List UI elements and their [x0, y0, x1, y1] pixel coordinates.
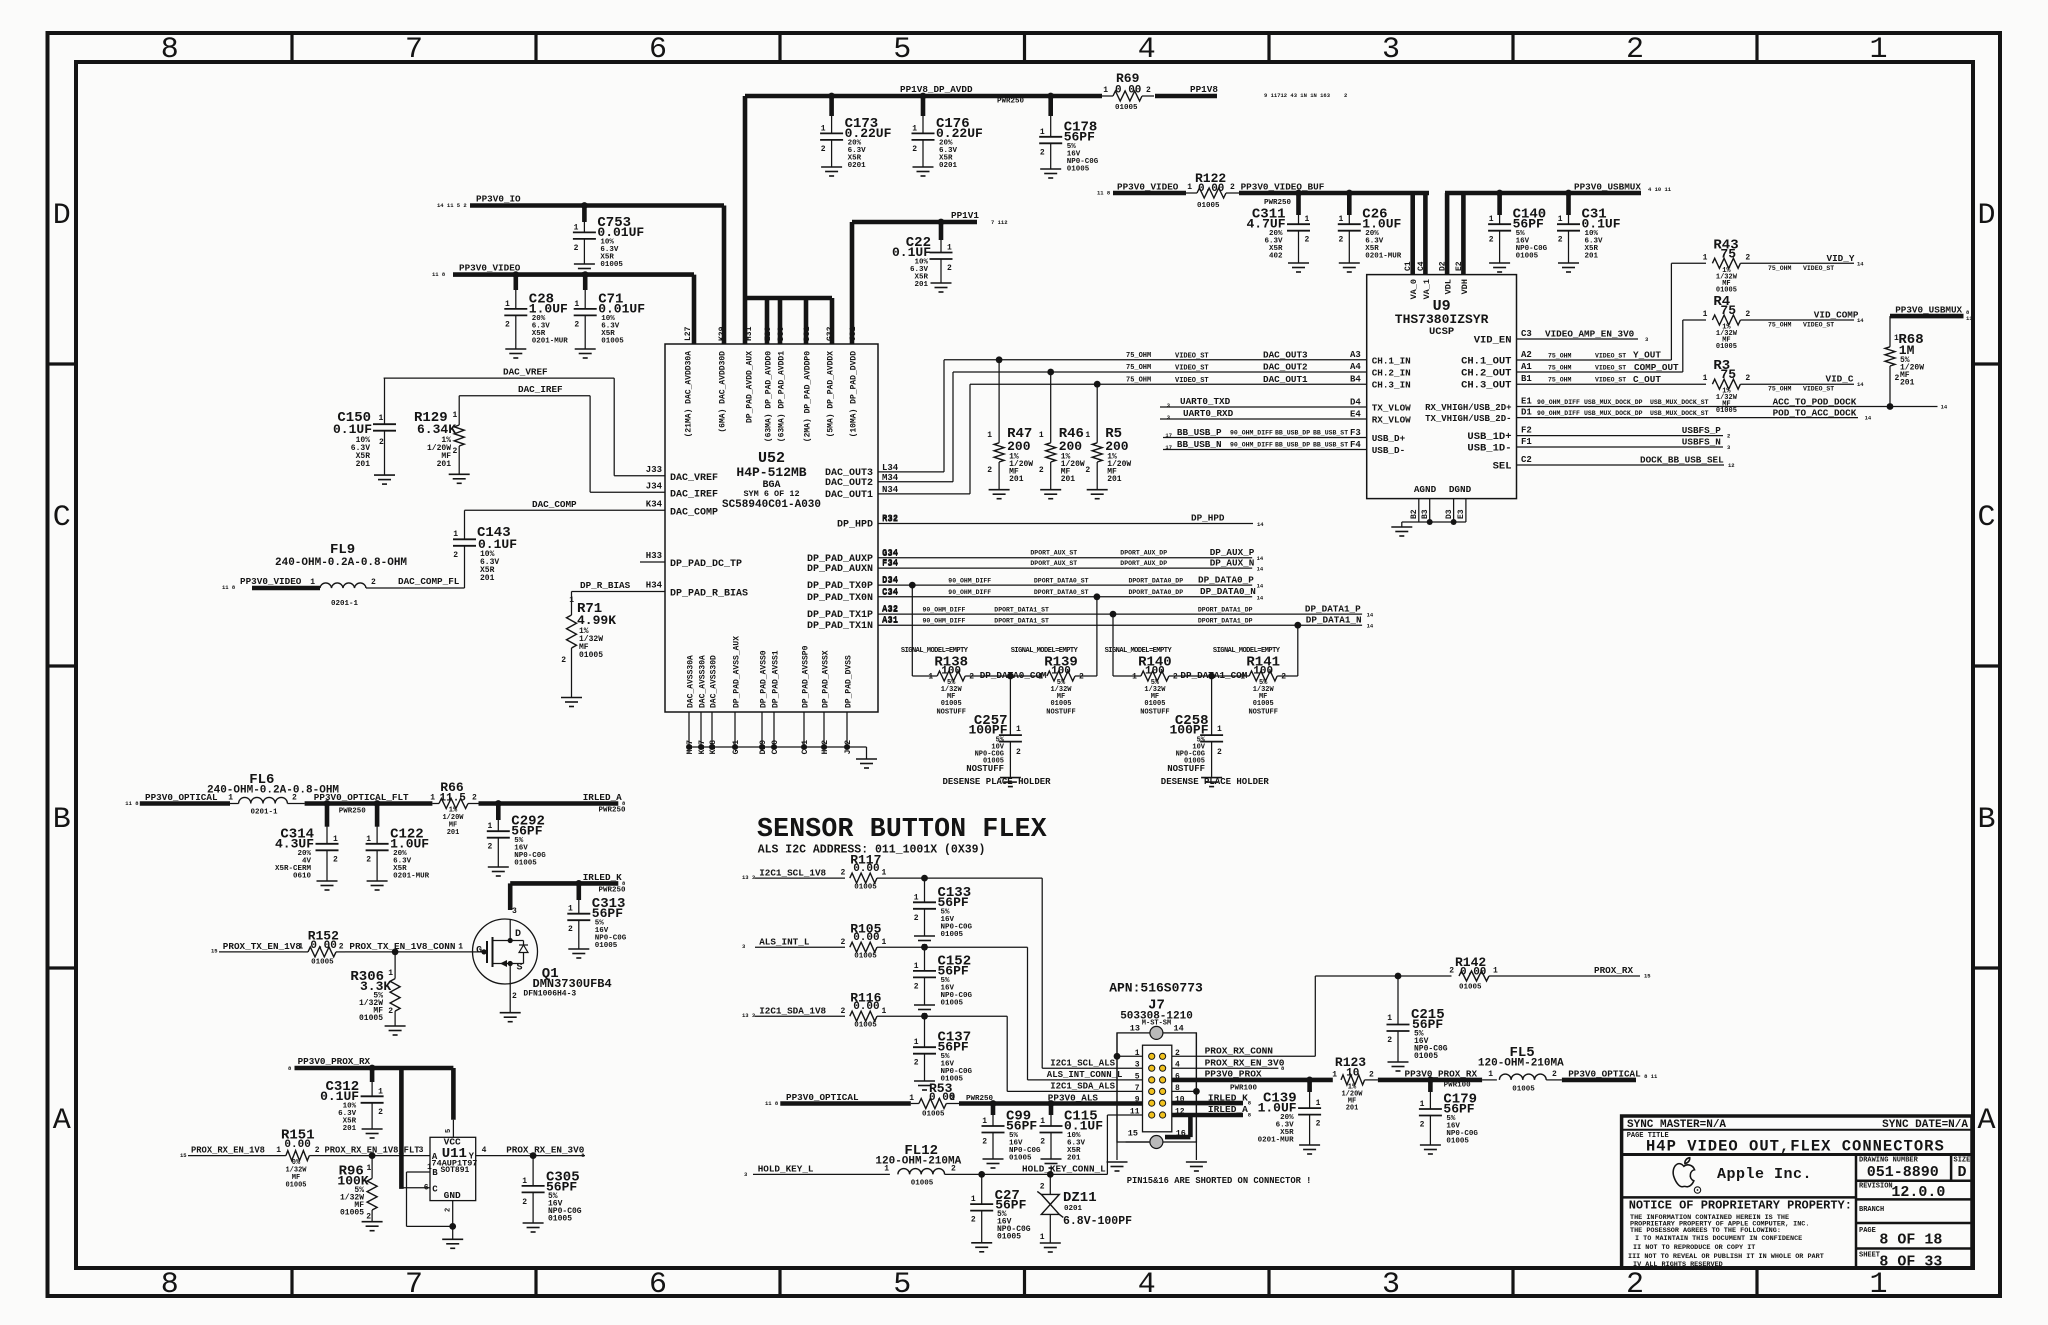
svg-text:11 8: 11 8 [432, 271, 446, 278]
svg-text:DAC_AVSS30A: DAC_AVSS30A [699, 655, 708, 708]
ferrite bead FL12 [875, 1143, 961, 1188]
svg-text:2: 2 [947, 264, 952, 273]
svg-text:A: A [432, 1152, 438, 1162]
svg-text:DP_DATA0_N: DP_DATA0_N [1200, 586, 1256, 597]
svg-text:(2MA) DP_PAD_AVDDP0: (2MA) DP_PAD_AVDDP0 [804, 351, 813, 442]
svg-text:C: C [53, 501, 71, 535]
svg-text:01005: 01005 [595, 942, 618, 950]
svg-text:4: 4 [482, 1146, 487, 1155]
capacitor C753 [573, 206, 645, 274]
svg-text:C: C [432, 1185, 438, 1195]
svg-text:1: 1 [1103, 86, 1108, 95]
svg-text:VID_EN: VID_EN [1474, 335, 1512, 347]
wire net IRLED_A (left) [479, 792, 627, 814]
capacitor C26 [1338, 193, 1402, 272]
svg-text:0201: 0201 [848, 162, 867, 170]
svg-text:ALS_INT_CONN_L: ALS_INT_CONN_L [1047, 1070, 1123, 1080]
wire PP1V8_DP_AVDD power rail [745, 84, 1102, 106]
label DESENSE PLACE HOLDER 1 [943, 777, 1052, 787]
capacitor C257 [966, 676, 1022, 778]
svg-text:DAC_VREF: DAC_VREF [670, 473, 718, 484]
svg-text:2: 2 [1369, 1071, 1374, 1080]
ground U52 [856, 759, 877, 768]
svg-text:DPORT_DATA1_ST: DPORT_DATA1_ST [994, 606, 1049, 613]
node junction C152 tap [921, 944, 928, 951]
svg-text:PROX_RX_CONN: PROX_RX_CONN [1205, 1045, 1274, 1056]
svg-text:BB_USB_N: BB_USB_N [1177, 439, 1222, 450]
svg-text:DAC_AVSS30A: DAC_AVSS30A [687, 655, 696, 708]
svg-text:BRANCH: BRANCH [1859, 1206, 1884, 1214]
svg-text:IRLED_A: IRLED_A [1208, 1104, 1248, 1115]
svg-text:VA_1: VA_1 [1422, 279, 1432, 299]
svg-text:0.00: 0.00 [853, 863, 879, 875]
svg-text:17: 17 [1165, 432, 1172, 439]
node junction C312 tap [369, 1065, 376, 1072]
svg-text:D4: D4 [1350, 398, 1361, 408]
svg-text:01005: 01005 [1009, 1155, 1032, 1163]
svg-text:UART0_TXD: UART0_TXD [1180, 396, 1231, 407]
svg-text:6.34K: 6.34K [417, 422, 456, 437]
ground C258 [1201, 778, 1222, 787]
svg-text:14: 14 [1257, 565, 1264, 572]
svg-text:DP_PAD_AVSS0: DP_PAD_AVSS0 [760, 650, 769, 708]
wire net PP1V8 [1155, 84, 1347, 99]
svg-text:VID_C: VID_C [1826, 374, 1854, 385]
ground C305 [523, 1223, 544, 1232]
svg-text:PP3V0_OPTICAL: PP3V0_OPTICAL [1568, 1069, 1641, 1080]
capacitor C140 [1488, 193, 1548, 272]
svg-text:4: 4 [1138, 33, 1156, 67]
svg-text:NOSTUFF: NOSTUFF [1248, 709, 1277, 717]
svg-text:(6MA) DAC_AVDD30D: (6MA) DAC_AVDD30D [719, 351, 728, 433]
svg-text:1: 1 [298, 943, 303, 952]
svg-text:DAC_OUT2: DAC_OUT2 [1263, 362, 1308, 373]
capacitor C178 [1039, 96, 1099, 178]
svg-text:VDH: VDH [1460, 279, 1470, 294]
svg-text:0.00: 0.00 [1460, 967, 1486, 979]
wire net DAC_OUT2 [878, 362, 1367, 482]
svg-text:0201-MUR: 0201-MUR [1258, 1137, 1295, 1145]
ground R96 [362, 1222, 383, 1231]
svg-text:1: 1 [1703, 253, 1708, 262]
node junction C139 tap [1306, 1077, 1313, 1084]
capacitor C137 [913, 1016, 973, 1090]
svg-text:HOLD_KEY_CONN_L: HOLD_KEY_CONN_L [1022, 1164, 1106, 1175]
svg-text:2: 2 [1305, 236, 1310, 245]
svg-text:2: 2 [378, 1108, 383, 1117]
svg-text:01005: 01005 [941, 931, 964, 939]
svg-text:5: 5 [1135, 1072, 1140, 1081]
wire net DP_DATA1_P [878, 604, 1374, 619]
border row labels D-A [53, 199, 1996, 1138]
svg-text:100: 100 [1051, 666, 1071, 678]
svg-text:D3: D3 [1445, 509, 1454, 519]
svg-text:11 8: 11 8 [765, 1100, 779, 1107]
svg-text:H33: H33 [646, 551, 662, 561]
zener diode DZ11 [1037, 1174, 1132, 1243]
svg-text:01005: 01005 [1716, 407, 1737, 415]
wire U11 VCC feed [445, 1068, 453, 1137]
svg-text:75_OHM: 75_OHM [1768, 265, 1792, 272]
svg-text:2: 2 [1745, 310, 1750, 319]
capacitor C258 [1167, 676, 1223, 778]
wire net PROX_RX_EN_3V0 (U11 out) [476, 1145, 586, 1159]
svg-text:01005: 01005 [1716, 343, 1737, 351]
svg-text:75_OHM: 75_OHM [1768, 386, 1792, 393]
wire net PP3V0_ALS [959, 1093, 1143, 1104]
svg-text:A3: A3 [1350, 350, 1361, 360]
svg-text:2: 2 [1040, 1183, 1045, 1192]
wire net DP_HPD [878, 513, 1264, 529]
svg-text:DAC_COMP: DAC_COMP [532, 499, 577, 510]
svg-text:1: 1 [333, 835, 338, 844]
svg-text:01005: 01005 [514, 860, 537, 868]
svg-text:0201-MUR: 0201-MUR [393, 872, 430, 880]
U52 pin H33 DP_PAD_DC_TP stub [640, 551, 742, 570]
svg-text:DAC_OUT1: DAC_OUT1 [825, 490, 873, 501]
svg-text:01005: 01005 [548, 1215, 572, 1224]
wire net PP3V0_OPTICAL (center) [765, 1092, 911, 1107]
svg-text:1: 1 [1489, 215, 1494, 224]
ferrite bead FL9 [275, 542, 407, 608]
ground J7 right [1186, 1162, 1207, 1171]
wire net PP3V0_OPTICAL (right) [1562, 1069, 1658, 1081]
wire U52 ground bus [689, 747, 867, 759]
svg-text:D2: D2 [1439, 261, 1448, 271]
svg-text:A4: A4 [1350, 362, 1361, 372]
svg-text:1: 1 [884, 1164, 889, 1173]
wire net DOCK_BB_USB_SEL [1517, 455, 1735, 470]
svg-text:VIDEO_ST: VIDEO_ST [1175, 365, 1209, 373]
svg-text:PP3V0_ALS: PP3V0_ALS [1048, 1093, 1099, 1104]
svg-text:2: 2 [950, 1094, 955, 1103]
node junction C311 [1295, 190, 1302, 197]
svg-text:201: 201 [1900, 379, 1915, 388]
capacitor C173 [820, 96, 892, 176]
ferrite bead FL5 [1478, 1045, 1564, 1093]
svg-text:USBFS_P: USBFS_P [1682, 425, 1721, 436]
node junction C27 tap [978, 1171, 985, 1178]
buffer U11 74AUP1T97 [430, 1137, 477, 1201]
ground R129 [449, 474, 470, 483]
wire net DAC_IREF [459, 384, 665, 492]
svg-text:15: 15 [1128, 1129, 1138, 1139]
svg-text:SHEET: SHEET [1859, 1252, 1880, 1260]
svg-text:0201: 0201 [939, 162, 958, 170]
svg-text:2: 2 [568, 925, 573, 934]
svg-text:1: 1 [379, 414, 384, 423]
svg-text:PP3V0_PROX_RX: PP3V0_PROX_RX [298, 1056, 371, 1067]
svg-text:201: 201 [914, 281, 928, 289]
svg-text:DAC_IREF: DAC_IREF [670, 490, 718, 501]
svg-text:0201-MUR: 0201-MUR [1365, 253, 1402, 261]
svg-text:III NOT TO REVEAL OR PUBLISH I: III NOT TO REVEAL OR PUBLISH IT IN WHOLE… [1628, 1253, 1824, 1261]
svg-text:2: 2 [1420, 1121, 1425, 1130]
wire net PROX_TX_EN_1V8 [211, 941, 303, 955]
wire net PP3V0_VIDEO to FL9 [222, 576, 320, 591]
svg-text:100PF: 100PF [968, 723, 1007, 738]
svg-text:4.99K: 4.99K [577, 613, 616, 628]
svg-text:2: 2 [505, 320, 510, 329]
svg-text:G32: G32 [826, 326, 835, 341]
svg-text:01005: 01005 [997, 1233, 1021, 1242]
svg-text:0.00: 0.00 [284, 1139, 310, 1151]
svg-text:2: 2 [512, 992, 517, 1001]
wire net DAC_COMP [465, 499, 666, 540]
node junction C753 tap [581, 202, 588, 209]
svg-text:DPORT_AUX_ST: DPORT_AUX_ST [1030, 550, 1077, 557]
svg-text:1: 1 [458, 943, 463, 952]
wire net POD_TO_ACC_DOCK [1517, 407, 1872, 421]
svg-text:SYNC DATE=N/A: SYNC DATE=N/A [1882, 1119, 1968, 1131]
svg-text:DPORT_DATA0_DP: DPORT_DATA0_DP [1129, 577, 1184, 584]
svg-text:1: 1 [505, 300, 510, 309]
svg-text:D31: D31 [803, 326, 812, 341]
svg-text:D1: D1 [1521, 408, 1532, 418]
ground DZ11 [1040, 1243, 1061, 1252]
wire Q1 source to ground [509, 984, 511, 1013]
node junction C314 tap [324, 800, 331, 807]
svg-text:Y_OUT: Y_OUT [1633, 350, 1661, 361]
svg-text:J31: J31 [849, 326, 858, 341]
svg-text:PWR100: PWR100 [1230, 1085, 1258, 1093]
wire net COMP_OUT [1517, 320, 1683, 373]
svg-text:PP3V0_PROX: PP3V0_PROX [1205, 1069, 1262, 1080]
svg-text:VIDEO_ST: VIDEO_ST [1595, 353, 1626, 360]
svg-text:USB_D-: USB_D- [1372, 445, 1405, 456]
wire net PROX_RX_EN_1V8_FLT [320, 1146, 430, 1156]
svg-text:1: 1 [569, 596, 574, 605]
capacitor C311 [1246, 193, 1310, 272]
svg-text:201: 201 [437, 460, 452, 469]
wire net PP3V0_PROX_RX (center) [1378, 1069, 1482, 1090]
resistor R151 [281, 1128, 320, 1190]
svg-text:1: 1 [276, 1146, 281, 1155]
svg-text:2: 2 [371, 578, 376, 587]
svg-text:2: 2 [339, 943, 344, 952]
svg-text:C_OUT: C_OUT [1633, 374, 1661, 385]
svg-text:2: 2 [388, 1007, 393, 1016]
svg-text:01005: 01005 [941, 999, 964, 1007]
svg-text:TX_VHIGH/USB_2D-: TX_VHIGH/USB_2D- [1425, 414, 1511, 424]
svg-text:01005: 01005 [911, 1180, 934, 1188]
svg-text:A: A [53, 1104, 71, 1138]
svg-text:2: 2 [912, 145, 917, 154]
svg-text:DAC_AVSS30D: DAC_AVSS30D [710, 655, 719, 708]
svg-text:1: 1 [982, 1117, 987, 1126]
svg-text:VIDEO_ST: VIDEO_ST [1803, 322, 1834, 329]
svg-text:01005: 01005 [359, 1014, 383, 1023]
wire net PROX_RX [1315, 955, 1651, 992]
resistor R96 [337, 1156, 377, 1222]
svg-text:BB_USB_ST: BB_USB_ST [1313, 442, 1348, 449]
svg-text:14 11 5 2: 14 11 5 2 [437, 202, 467, 209]
svg-text:2: 2 [1558, 236, 1563, 245]
svg-text:01005: 01005 [1197, 202, 1220, 210]
svg-text:2: 2 [1039, 466, 1044, 475]
svg-text:75: 75 [1720, 367, 1736, 382]
svg-text:100: 100 [1145, 666, 1165, 678]
op-amp U52 H4P-512MB body [665, 344, 878, 712]
node junction C137 tap [921, 1013, 928, 1020]
svg-text:TX_VLOW: TX_VLOW [1372, 403, 1411, 414]
capacitor C215 [1387, 976, 1448, 1062]
svg-text:12: 12 [1728, 462, 1735, 469]
svg-text:SENSOR BUTTON FLEX: SENSOR BUTTON FLEX [757, 814, 1047, 844]
svg-text:2: 2 [1217, 748, 1222, 757]
svg-text:PP1V8: PP1V8 [1190, 84, 1218, 95]
svg-text:CH.3_IN: CH.3_IN [1372, 380, 1411, 391]
border row dividers [48, 364, 2001, 968]
wire net DP_DATA0_COM [965, 670, 1047, 681]
svg-text:14: 14 [1174, 1024, 1184, 1034]
svg-text:DP_HPD: DP_HPD [1191, 513, 1225, 524]
svg-text:VIDEO_ST: VIDEO_ST [1175, 353, 1209, 361]
svg-text:DAC_OUT3: DAC_OUT3 [1263, 350, 1308, 361]
title block outer [1622, 1116, 1972, 1268]
svg-text:D30: D30 [777, 326, 786, 341]
svg-text:100: 100 [941, 666, 961, 678]
svg-text:BB_USB_DP: BB_USB_DP [1275, 442, 1310, 449]
resistor R46 [1039, 372, 1085, 499]
capacitor C115 [1040, 1104, 1104, 1169]
svg-text:NOTICE OF PROPRIETARY PROPERTY: NOTICE OF PROPRIETARY PROPERTY: [1629, 1199, 1852, 1213]
svg-text:VDL: VDL [1444, 279, 1454, 294]
svg-text:NOSTUFF: NOSTUFF [936, 709, 965, 717]
node junction C133 tap [921, 875, 928, 882]
border column dividers [292, 33, 1757, 1296]
svg-text:2: 2 [472, 794, 477, 803]
svg-text:CH.1_IN: CH.1_IN [1372, 356, 1411, 367]
svg-text:USB_MUX_DOCK_ST: USB_MUX_DOCK_ST [1650, 399, 1709, 406]
svg-text:ACC_TO_POD_DOCK: ACC_TO_POD_DOCK [1773, 396, 1857, 407]
svg-text:1: 1 [574, 223, 579, 232]
svg-text:DP_PAD_AUXN: DP_PAD_AUXN [807, 564, 873, 575]
svg-text:1: 1 [882, 1007, 887, 1016]
svg-text:2: 2 [1079, 673, 1084, 682]
svg-text:2: 2 [951, 1164, 956, 1173]
svg-text:01005: 01005 [854, 883, 877, 891]
svg-text:E4: E4 [1350, 410, 1361, 420]
svg-text:NOSTUFF: NOSTUFF [966, 764, 1004, 774]
svg-text:GND: GND [444, 1190, 461, 1201]
svg-text:90_OHM_DIFF: 90_OHM_DIFF [1537, 399, 1580, 406]
svg-text:1: 1 [378, 1087, 383, 1096]
svg-text:2: 2 [1040, 1138, 1045, 1147]
capacitor C27 [970, 1174, 1031, 1242]
svg-text:1: 1 [947, 244, 952, 253]
resistor R139 [1011, 597, 1097, 717]
svg-text:01005: 01005 [1414, 1052, 1438, 1061]
svg-text:AGND: AGND [1414, 484, 1437, 495]
wire net IRLED_A (J7) [1165, 1104, 1252, 1137]
svg-text:13 3: 13 3 [742, 874, 756, 881]
wire net C_OUT [1517, 374, 1707, 385]
svg-text:C34: C34 [882, 587, 899, 597]
svg-text:VIDEO_ST: VIDEO_ST [1595, 365, 1626, 372]
svg-text:201: 201 [1009, 475, 1024, 484]
wire net UART0_RXD [1160, 408, 1367, 421]
svg-text:DPORT_DATA1_DP: DPORT_DATA1_DP [1198, 606, 1253, 613]
capacitor C150 [333, 378, 396, 475]
svg-text:Y: Y [469, 1152, 475, 1162]
svg-text:1: 1 [1038, 673, 1043, 682]
svg-text:1: 1 [971, 1195, 976, 1204]
svg-text:1: 1 [1316, 1099, 1321, 1108]
svg-text:I TO MAINTAIN THIS DOCUMENT IN: I TO MAINTAIN THIS DOCUMENT IN CONFIDENC… [1635, 1235, 1802, 1243]
svg-text:3: 3 [1382, 1268, 1400, 1302]
svg-text:14: 14 [1865, 415, 1872, 422]
svg-text:2: 2 [1230, 183, 1235, 192]
U9 AGND DGND pins [1410, 484, 1472, 522]
node junction C140 [1496, 190, 1503, 197]
svg-text:PP3V0_PROX_RX: PP3V0_PROX_RX [1405, 1069, 1478, 1080]
svg-text:PIN15&16 ARE SHORTED ON CONNEC: PIN15&16 ARE SHORTED ON CONNECTOR ! [1127, 1176, 1312, 1186]
wire net PP3V0_OPTICAL_FLT [305, 792, 433, 816]
node junction C176 tap [920, 93, 927, 100]
svg-text:B3: B3 [1421, 509, 1430, 519]
capacitor C122 [366, 804, 430, 891]
svg-text:VID_COMP: VID_COMP [1814, 310, 1859, 321]
svg-text:G34: G34 [882, 548, 899, 558]
title block right column [1856, 1155, 1972, 1269]
svg-text:USB_1D-: USB_1D- [1467, 443, 1511, 455]
wire net IRLED_K (left) [510, 872, 626, 910]
resistor R3 [1703, 358, 1865, 415]
svg-text:(5MA) DP_PAD_AVDDX: (5MA) DP_PAD_AVDDX [827, 351, 836, 438]
svg-text:1: 1 [1040, 128, 1045, 137]
resistor R152 [298, 929, 345, 967]
capacitor C139 [1258, 1080, 1322, 1154]
svg-text:E1: E1 [1521, 397, 1532, 407]
resistor R47 [987, 360, 1033, 499]
svg-text:75_OHM: 75_OHM [1548, 377, 1572, 384]
svg-text:2: 2 [969, 673, 974, 682]
title block page [1859, 1227, 1942, 1249]
resistor R129 [414, 396, 464, 475]
svg-text:DPORT_AUX_DP: DPORT_AUX_DP [1120, 550, 1167, 557]
svg-text:PWR250: PWR250 [599, 807, 627, 815]
wire DP_PAD_AVDD bus to pins [745, 298, 832, 344]
svg-text:2: 2 [315, 1146, 320, 1155]
svg-text:USB_MUX_DOCK_DP: USB_MUX_DOCK_DP [1584, 399, 1643, 406]
svg-text:DP_AUX_N: DP_AUX_N [1210, 557, 1255, 568]
svg-text:1: 1 [882, 938, 887, 947]
resistor R123 [1332, 1055, 1378, 1112]
wire net PP1V1 [852, 210, 1008, 344]
label APN:516S0773 [1109, 980, 1203, 995]
svg-text:C: C [1977, 501, 1995, 535]
svg-text:0201: 0201 [1064, 1205, 1083, 1213]
wire net DP_DATA1_N [878, 615, 1374, 630]
svg-text:0201-MUR: 0201-MUR [532, 337, 569, 345]
svg-text:8 OF 33: 8 OF 33 [1879, 1254, 1942, 1271]
node junction C173 tap [828, 93, 835, 100]
svg-text:UCSP: UCSP [1429, 326, 1454, 338]
svg-text:USB_1D+: USB_1D+ [1467, 431, 1511, 443]
svg-text:01005: 01005 [600, 261, 623, 269]
title block sync row [1622, 1119, 1972, 1131]
node junction C115 tap [1048, 1100, 1055, 1107]
svg-text:2: 2 [840, 938, 845, 947]
svg-text:2: 2 [982, 1138, 987, 1147]
svg-text:0.00: 0.00 [853, 1001, 879, 1013]
svg-text:2: 2 [1449, 967, 1454, 976]
svg-text:1: 1 [1305, 215, 1310, 224]
wire net DAC_COMP_FL [366, 576, 465, 588]
svg-text:14: 14 [1857, 317, 1864, 324]
wire U9 VDL VDH supply drops [1447, 193, 1463, 275]
